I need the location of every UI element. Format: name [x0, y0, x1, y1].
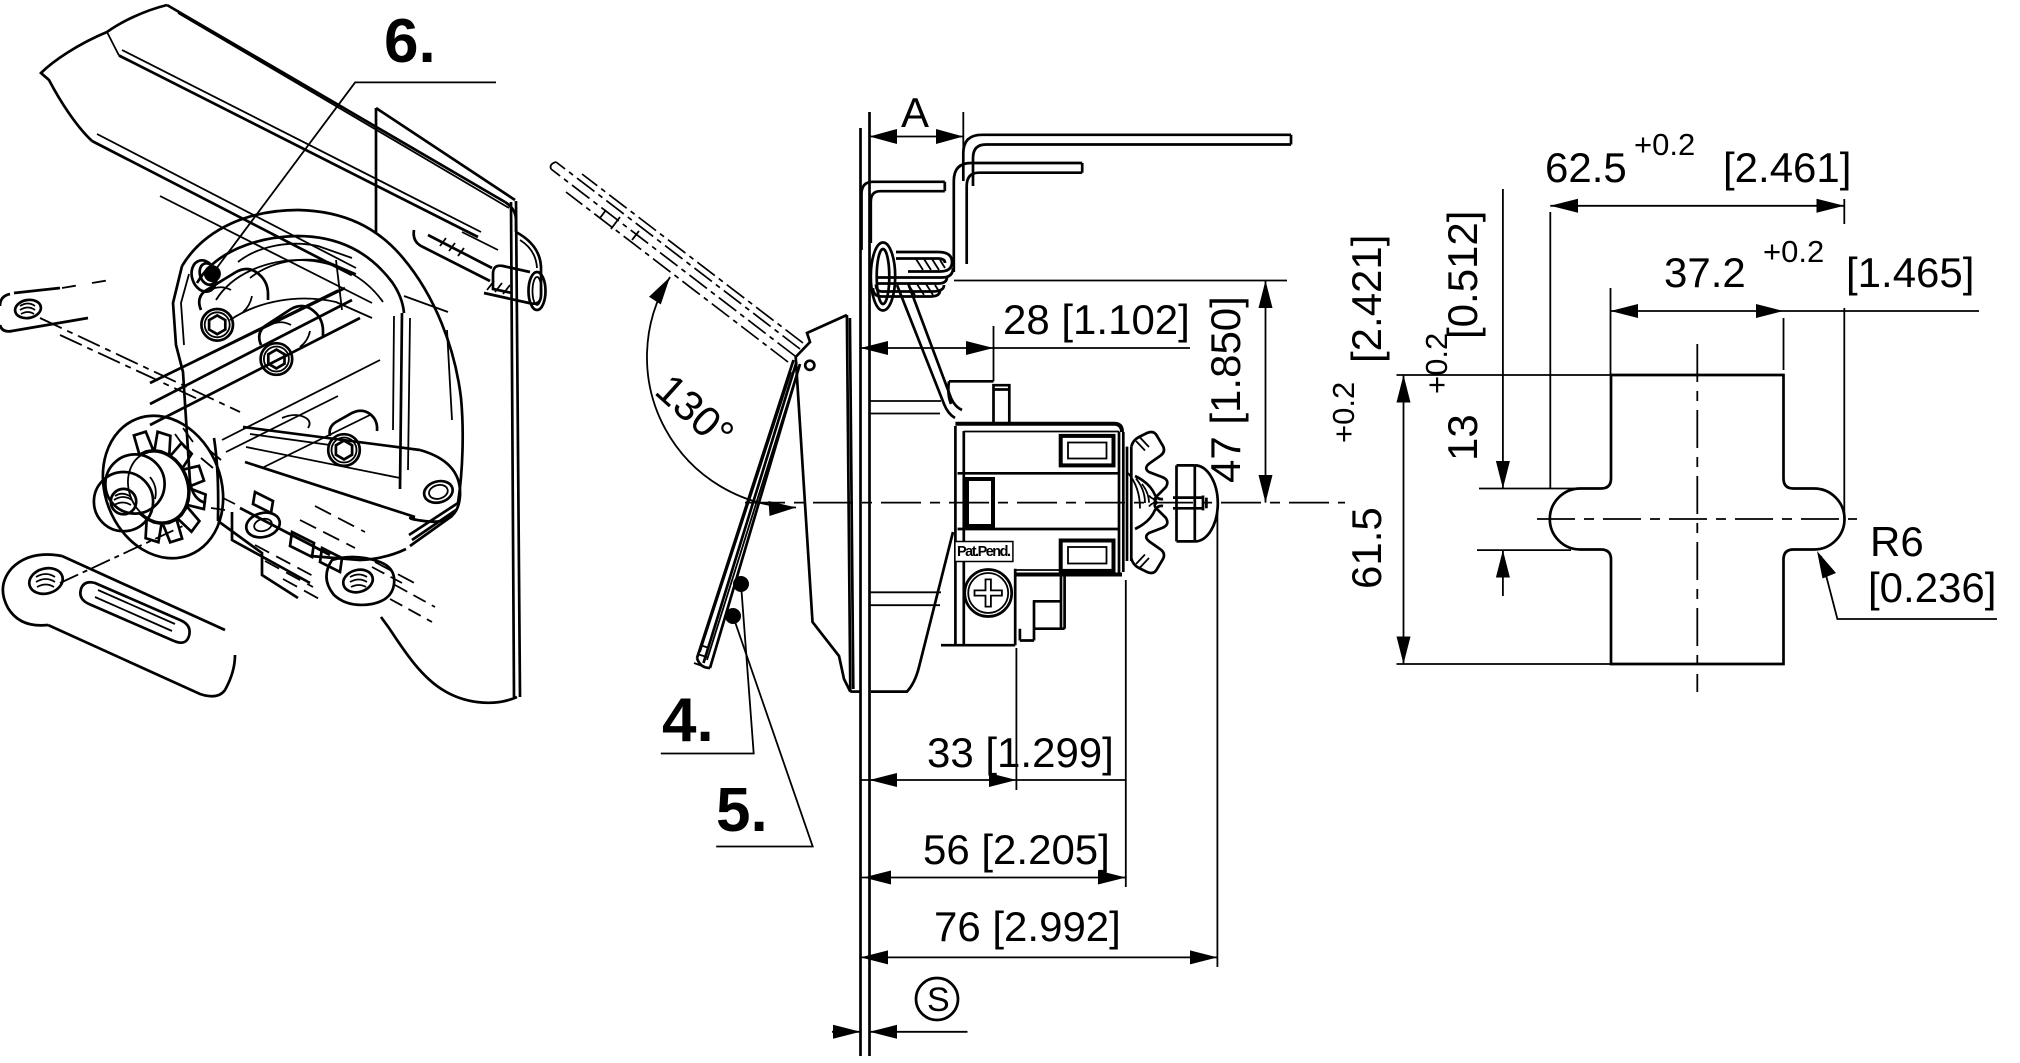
- svg-text:28 [1.102]: 28 [1.102]: [1003, 296, 1190, 343]
- upper left arm outline: [0, 288, 88, 331]
- clip oval outer: [871, 243, 895, 311]
- housing inner rib: [336, 260, 342, 310]
- body bottom heavy rail: [1015, 573, 1122, 577]
- open handle phantom lines: [551, 162, 803, 362]
- housing tower top slant: [404, 296, 448, 312]
- dim 76 arrowhead left: [861, 950, 889, 964]
- central channel bottom: [958, 528, 1120, 531]
- dim 76 arrowhead right: [1190, 950, 1217, 964]
- gear hub line: [1127, 447, 1131, 561]
- dim 13 extensions: [1477, 489, 1580, 551]
- upper left arm hole thread: [20, 304, 35, 315]
- bushing 1 rings: [208, 287, 252, 312]
- clip jaw serrations: [916, 259, 945, 270]
- clip left arm inner: [871, 191, 945, 243]
- svg-text:+0.2: +0.2: [1763, 234, 1824, 269]
- gear boss ellipse: [83, 398, 244, 576]
- housing right wall: [1119, 432, 1123, 575]
- axle stem: [1173, 496, 1206, 511]
- panel bottom wavy edge: [381, 617, 517, 703]
- svg-text:+0.2: +0.2: [1419, 333, 1454, 394]
- gear cone hatch: [1128, 473, 1157, 509]
- dim 33 line: [861, 779, 1127, 781]
- rail front face bottom edge: [92, 141, 352, 275]
- closed handle inner lines: [700, 370, 798, 660]
- lower bracket dashes: [233, 541, 323, 601]
- lower bracket plate: [232, 508, 330, 583]
- knob cylinder edge: [1175, 465, 1178, 541]
- svg-text:37.2: 37.2: [1664, 249, 1746, 296]
- 130 arc arrowhead bottom: [769, 501, 797, 516]
- knob thread hole outer: [111, 489, 136, 514]
- dim 47 line: [1265, 281, 1267, 503]
- dim A arrowhead left: [870, 129, 898, 144]
- cutout vertical centerline: [1696, 344, 1698, 692]
- housing arch outer: [182, 210, 463, 503]
- swing arm bottom edge: [245, 462, 415, 517]
- rail left small fold: [107, 32, 119, 56]
- phillips screw inner: [968, 573, 1008, 613]
- bushing 2 screw outer: [261, 343, 293, 375]
- svg-text:76 [2.992]: 76 [2.992]: [934, 903, 1121, 950]
- panel plate right edge outer: [516, 201, 520, 697]
- handle dot lower: [725, 608, 741, 624]
- open handle detail ticks: [600, 210, 639, 240]
- Pat.Pend. box: [955, 542, 1013, 562]
- clip left arm end cap: [943, 182, 946, 191]
- svg-text:[2.421]: [2.421]: [1343, 235, 1390, 363]
- svg-text:S: S: [927, 981, 950, 1019]
- clip upper jaw inner line: [896, 259, 945, 264]
- panel plate left edge: [375, 108, 378, 232]
- cutout outline: [1550, 375, 1845, 664]
- svg-text:61.5: 61.5: [1343, 507, 1390, 589]
- bushing 1 hex socket: [209, 315, 225, 334]
- body step plateau: [948, 381, 993, 404]
- housing inner strap lower: [230, 299, 372, 320]
- lower window outer: [1061, 541, 1114, 571]
- rail fold line: [178, 13, 509, 208]
- phillips screw outer: [965, 570, 1012, 617]
- housing left inner line: [181, 274, 189, 345]
- lower arm slot inner: [95, 590, 175, 631]
- bezel pivot hole: [805, 361, 814, 370]
- rail clip oval outer: [529, 272, 546, 310]
- svg-text:47 [1.850]: 47 [1.850]: [1202, 296, 1249, 483]
- dim 56 arrowhead right: [1098, 871, 1126, 885]
- dim A extension right: [962, 112, 964, 178]
- dim 56 extension: [1125, 580, 1127, 887]
- body top secondary line: [964, 431, 1119, 433]
- dim 47 arrowhead bottom: [1259, 475, 1273, 503]
- bevel gear teeth: [134, 432, 206, 543]
- dashed centerline: [745, 502, 1345, 504]
- upper left arm hole outer: [14, 298, 43, 320]
- bushing 1 screw rim: [205, 312, 230, 337]
- panel rear line: [868, 112, 871, 1056]
- rail front face bottom companion: [97, 134, 356, 268]
- lower right foot plate: [326, 557, 394, 605]
- arm small circle detail: [282, 415, 310, 428]
- svg-text:[0.236]: [0.236]: [1868, 564, 1996, 611]
- clip oval inner: [877, 249, 890, 304]
- clip spring arm to body: [897, 283, 962, 418]
- striker bracket upper bar outer: [963, 135, 1291, 181]
- gear teeth lower: [1131, 503, 1167, 573]
- bezel bottom edge: [850, 690, 860, 693]
- bezel front face line: [847, 315, 850, 692]
- arm hex screw outer: [328, 434, 360, 466]
- lower right foot hole: [341, 566, 376, 595]
- 130 deg arc: [647, 277, 796, 508]
- svg-text:13: 13: [1439, 414, 1486, 461]
- central channel top: [958, 472, 1120, 475]
- closed handle tip hatching: [694, 645, 709, 667]
- rail inner bottom line: [160, 196, 372, 303]
- svg-text:[0.512]: [0.512]: [1439, 211, 1486, 339]
- rail end inner lip: [493, 266, 530, 293]
- gear tooth hatch: [175, 428, 235, 510]
- swing arm round end: [410, 450, 460, 522]
- phantom line to mechanism: [40, 318, 240, 412]
- cam square: [967, 479, 993, 526]
- bushing 2 screw rim: [264, 347, 289, 372]
- upper window outer: [1061, 436, 1114, 466]
- rail end hatch: [487, 281, 510, 294]
- housing inner strap upper: [238, 244, 352, 262]
- dim A arrowhead right: [936, 129, 963, 144]
- clip lower jaw: [878, 268, 953, 284]
- dim 28 extension: [993, 326, 995, 381]
- upper arm hidden edge dashes: [62, 280, 110, 288]
- rail left cut wave: [41, 32, 107, 141]
- clip upper jaw: [896, 252, 952, 272]
- panel front line: [859, 128, 862, 1056]
- body bottom thin line: [1015, 569, 1060, 571]
- block bottom edge: [218, 521, 298, 598]
- lower left arm body top: [62, 556, 225, 630]
- label 4 leader: [661, 584, 754, 754]
- dim 76 extension: [1216, 506, 1218, 967]
- bushing 1 cylinder: [199, 269, 268, 310]
- front housing bottom slope: [871, 532, 953, 692]
- dim 28 line: [861, 347, 1191, 349]
- closed handle blade: [697, 360, 800, 668]
- gear tooth mid lines: [1136, 438, 1149, 568]
- lower right foot hole thread: [350, 575, 367, 588]
- housing tower inner edge heavy: [400, 313, 402, 489]
- barrel front face lines: [955, 426, 963, 645]
- svg-text:4.: 4.: [662, 686, 714, 755]
- phillips cross: [975, 579, 1002, 606]
- svg-text:33 [1.299]: 33 [1.299]: [927, 729, 1114, 776]
- arch window inner curve 2: [250, 260, 356, 278]
- clip lower leaf: [882, 285, 944, 297]
- housing left edge: [173, 266, 206, 503]
- housing countersink hole inner: [197, 261, 219, 287]
- bezel rear edge against panel: [850, 318, 853, 689]
- closed handle tip cap: [697, 658, 710, 668]
- connector steps: [1020, 576, 1065, 641]
- svg-text:+0.2: +0.2: [1634, 127, 1695, 162]
- striker bracket upper bar end cap: [1290, 135, 1293, 145]
- dim 76 line: [861, 956, 1218, 958]
- block front vertical edge: [214, 438, 218, 521]
- tower face inner lines: [408, 318, 452, 470]
- dim 47 arrowhead top: [1259, 281, 1273, 309]
- clip top arm inner: [967, 173, 1082, 264]
- swing arm end hole outer: [422, 478, 455, 506]
- housing countersink hole outer: [188, 257, 221, 295]
- bezel outline: [796, 315, 851, 692]
- dim 13 line segments: [1502, 189, 1504, 596]
- dim 33 arrowhead left: [870, 773, 898, 787]
- striker bracket upper bar inner: [973, 145, 1291, 187]
- bushing 2 hex socket: [268, 350, 284, 369]
- knob cap arc: [1195, 465, 1218, 541]
- lower arm phantom axis: [60, 525, 185, 583]
- bushing 2 cylinder: [259, 306, 323, 345]
- dim 33 extension: [1015, 648, 1017, 790]
- knob thread spiral: [114, 494, 132, 505]
- label 6 leader: [216, 82, 496, 269]
- housing tower inner edge thin: [393, 316, 394, 430]
- dim 47 top extension: [954, 280, 1287, 282]
- dim 28 arrowhead right: [966, 341, 994, 355]
- cutout horizontal centerline: [1537, 518, 1857, 520]
- dim 62.5 right extension: [1843, 199, 1845, 525]
- dim 37.2 extensions: [1611, 288, 1784, 375]
- clip left arm outer: [862, 182, 945, 250]
- knob side line: [150, 477, 156, 499]
- bevel gear inner edge: [118, 443, 198, 531]
- dim S line right: [870, 1031, 968, 1033]
- swing arm end hole thread: [427, 483, 449, 501]
- bushing 2 rings: [268, 322, 310, 347]
- label 6 dot: [204, 265, 221, 282]
- gear center cone: [1135, 476, 1163, 529]
- housing chamfer band: [409, 503, 458, 546]
- upper window inner: [1068, 443, 1107, 459]
- rail end inner hook 2: [462, 232, 537, 268]
- connector left wall: [1014, 569, 1017, 645]
- dim 56 arrowhead left: [864, 871, 892, 885]
- lower left arm hole thread: [36, 574, 55, 587]
- svg-text:+0.2: +0.2: [1326, 382, 1361, 443]
- lower left arm round end: [3, 555, 62, 626]
- dim 33 arrowhead right: [989, 773, 1016, 787]
- rail front top fold companion: [122, 50, 481, 232]
- S symbol circle: [916, 978, 958, 1020]
- dim 56 line: [861, 877, 1126, 879]
- rail front top fold heavy: [119, 56, 478, 238]
- svg-text:Pat.Pend.: Pat.Pend.: [957, 544, 1011, 560]
- arm hex screw rim: [332, 438, 357, 463]
- panel plate top edge: [376, 108, 515, 200]
- swing arm top edge: [243, 427, 420, 450]
- bracket extra dashes: [300, 506, 420, 586]
- dim 13 arrowheads: [1496, 461, 1510, 489]
- rail end profile: [484, 232, 541, 304]
- rail clip oval inner: [533, 277, 542, 305]
- clip lower jaw serrations: [908, 284, 940, 295]
- housing inner cavity arc: [216, 260, 383, 302]
- front housing rib pair upper: [870, 401, 941, 414]
- svg-text:R6: R6: [1870, 518, 1924, 565]
- housing bottom edge: [310, 549, 406, 560]
- lower left arm hole outer: [26, 565, 65, 598]
- svg-text:6.: 6.: [384, 7, 436, 76]
- block face line: [222, 360, 380, 440]
- block top edge lines: [150, 288, 360, 425]
- dim S arrow outside left: [832, 1031, 861, 1033]
- dim 28 arrowhead left: [861, 341, 889, 355]
- gear teeth upper: [1131, 432, 1167, 503]
- rail right end fold: [505, 202, 516, 232]
- swing arm inner line: [246, 434, 400, 478]
- lower arm slot: [80, 582, 189, 642]
- svg-text:A: A: [901, 89, 929, 136]
- barrel bottom: [941, 644, 1015, 647]
- block extra lines: [196, 290, 372, 468]
- svg-text:56 [2.205]: 56 [2.205]: [923, 826, 1110, 873]
- lower bracket slots: [290, 532, 342, 572]
- knob outer circle: [94, 472, 153, 531]
- rail left cut top: [107, 5, 167, 32]
- dim 61.5 line: [1403, 375, 1405, 664]
- rail end bracket lower line: [414, 230, 490, 281]
- bracket extra slots: [253, 492, 273, 513]
- 130 arc arrowhead top: [649, 277, 670, 304]
- rail end bracket upper line: [428, 235, 492, 268]
- rail lip serrations: [440, 238, 464, 256]
- dim 37.2 line: [1611, 310, 1980, 312]
- dim A arrow line: [870, 136, 964, 138]
- bushing 1 screw outer: [201, 309, 233, 341]
- label 5 leader: [716, 616, 813, 847]
- svg-text:62.5: 62.5: [1545, 144, 1627, 191]
- panel plate right edge inner: [511, 202, 514, 697]
- open handle tip cap: [551, 162, 556, 169]
- dim 61.5 extensions: [1397, 375, 1612, 664]
- body top rail heavy: [955, 424, 1122, 432]
- knob cylinder top/bottom: [1177, 465, 1195, 541]
- arm hex screw bushing: [330, 411, 378, 436]
- dim 62.5 line: [1550, 205, 1844, 207]
- clip top arm end cap: [1081, 163, 1084, 173]
- svg-text:5.: 5.: [716, 776, 768, 845]
- phantom line 2: [60, 335, 200, 400]
- housing arch inner: [197, 236, 404, 313]
- arm hex socket: [336, 441, 352, 460]
- front housing rib pair lower: [870, 592, 941, 605]
- dim 62.5 left extension: [1549, 212, 1551, 488]
- knob back rim: [105, 454, 164, 513]
- clip top arm outer: [954, 163, 1082, 272]
- lower bracket rivet inner: [253, 517, 273, 533]
- lower window inner: [1068, 547, 1107, 564]
- svg-text:[1.465]: [1.465]: [1846, 249, 1974, 296]
- clip leaf left curl: [873, 285, 882, 297]
- rail top back edge: [167, 5, 505, 202]
- knob cap face line: [1193, 465, 1196, 541]
- handle dot upper: [733, 576, 749, 592]
- R6 leader: [1821, 556, 1997, 619]
- body step block: [994, 385, 1010, 425]
- svg-text:[2.461]: [2.461]: [1723, 144, 1851, 191]
- foot hidden dashes: [372, 567, 435, 622]
- lower bracket rivet ring: [243, 509, 282, 541]
- lower left arm body bottom: [48, 625, 235, 696]
